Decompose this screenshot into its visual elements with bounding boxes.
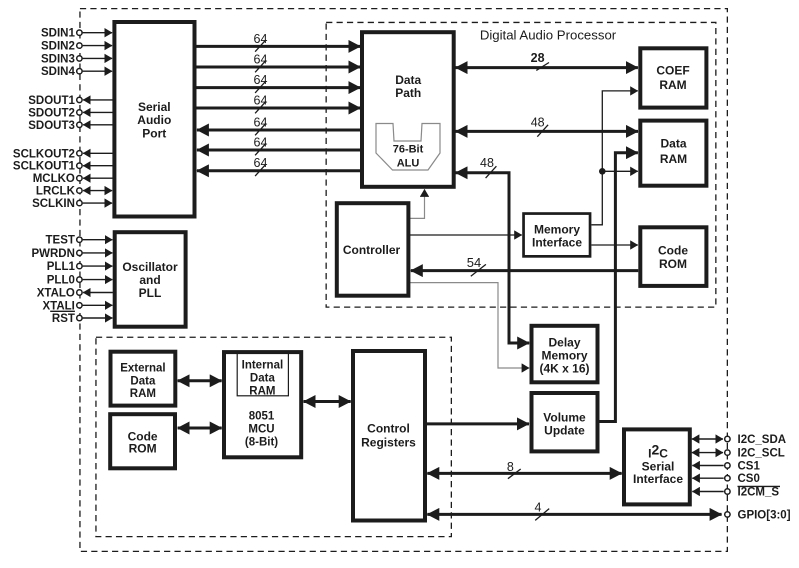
svg-text:XTALO: XTALO (37, 288, 75, 300)
svg-text:Digital Audio Processor: Digital Audio Processor (480, 28, 617, 43)
svg-text:External: External (120, 362, 165, 374)
svg-text:PWRDN: PWRDN (31, 248, 74, 260)
svg-text:64: 64 (254, 73, 268, 87)
svg-text:I2C_SCL: I2C_SCL (738, 448, 785, 460)
svg-text:Serial: Serial (138, 100, 171, 114)
Digital Audio Processor dashed box (326, 22, 716, 307)
svg-text:(4K x 16): (4K x 16) (539, 362, 589, 376)
svg-text:PLL1: PLL1 (47, 261, 76, 273)
svg-text:RAM: RAM (249, 386, 275, 398)
bus 64 #6 (wire) (197, 135, 360, 155)
svg-text:TEST: TEST (46, 235, 75, 247)
bus 64 #2 (wire) (197, 52, 361, 72)
pin PLL0 (47, 275, 113, 287)
pin SCLKIN (32, 198, 112, 210)
svg-text:PLL: PLL (139, 286, 162, 300)
svg-text:4: 4 (535, 500, 542, 514)
bus 54 Code ROM->Controller (wire) (411, 255, 639, 276)
bus 64 #7 (wire) (197, 156, 360, 176)
svg-text:I2C_SDA: I2C_SDA (738, 434, 787, 446)
svg-text:Delay: Delay (548, 336, 580, 350)
svg-text:PLL0: PLL0 (47, 275, 75, 287)
svg-text:SDIN4: SDIN4 (41, 66, 75, 78)
pin I2CM_S (active low) (692, 486, 780, 498)
pin SDIN2 (41, 41, 112, 53)
bus 4 Control Registers<->GPIO (wire) (427, 500, 721, 520)
svg-text:76-Bit: 76-Bit (393, 143, 424, 155)
wire Controller->Delay Memory (gray) (410, 283, 529, 368)
svg-text:Audio: Audio (137, 113, 171, 127)
block 8051 MCU (224, 352, 301, 457)
svg-text:64: 64 (254, 52, 268, 66)
block Volume Update (532, 393, 598, 451)
svg-text:ROM: ROM (129, 442, 157, 456)
pin SDOUT3 (28, 120, 112, 132)
pin TEST (46, 235, 113, 247)
svg-text:48: 48 (480, 156, 494, 170)
svg-text:and: and (139, 273, 160, 287)
svg-text:MCU: MCU (248, 424, 274, 436)
outer chip boundary (dashed) (80, 9, 727, 552)
svg-text:SDIN1: SDIN1 (41, 28, 75, 40)
block Oscillator and PLL (115, 232, 186, 327)
svg-text:28: 28 (531, 51, 545, 65)
label: Digital Audio Processor (480, 28, 617, 43)
pin SDOUT1 (28, 95, 112, 107)
block Data Path (362, 32, 454, 187)
svg-text:RAM: RAM (659, 78, 686, 92)
pin SDOUT2 (28, 107, 112, 119)
svg-text:Oscillator: Oscillator (122, 260, 178, 274)
bus 48 Data Path<->Data RAM (wire) (456, 115, 639, 136)
svg-text:RST: RST (52, 313, 75, 325)
svg-text:SDOUT1: SDOUT1 (28, 95, 75, 107)
svg-text:Control: Control (367, 421, 410, 435)
pin SCLKOUT2 (13, 148, 113, 160)
svg-text:COEF: COEF (656, 64, 689, 78)
svg-text:8051: 8051 (249, 410, 275, 422)
svg-text:(8-Bit): (8-Bit) (245, 437, 278, 449)
svg-text:Data: Data (130, 375, 156, 387)
pin XTALO (37, 288, 113, 300)
pin I2C_SCL (692, 448, 785, 460)
pin SDIN1 (41, 28, 112, 40)
svg-text:SDOUT3: SDOUT3 (28, 120, 75, 132)
svg-text:MCLKO: MCLKO (33, 173, 75, 185)
pin MCLKO (33, 173, 113, 185)
svg-text:SDIN3: SDIN3 (41, 53, 75, 65)
bus 28 Data Path<->COEF RAM (wire) (456, 51, 638, 70)
block Code ROM (DAP) (640, 227, 706, 286)
block COEF RAM (640, 48, 706, 107)
svg-text:Controller: Controller (343, 243, 401, 257)
svg-text:CS1: CS1 (738, 461, 761, 473)
svg-text:Volume: Volume (543, 411, 586, 425)
block Controller (337, 203, 409, 296)
svg-text:Data: Data (660, 137, 686, 151)
bus 8 Control Registers<->I2C (wire) (427, 460, 621, 479)
svg-text:CS0: CS0 (738, 473, 760, 485)
block Code ROM (MCU) (110, 414, 175, 468)
pin CS1 (692, 461, 760, 473)
svg-text:ALU: ALU (397, 158, 420, 170)
block Delay Memory (532, 326, 598, 383)
svg-text:Internal: Internal (242, 360, 284, 372)
wire Memory Interface->Code ROM (591, 244, 637, 246)
wire Controller->Data Path (gray) (410, 189, 425, 218)
pin LRCLK (36, 186, 112, 198)
pin PLL1 (47, 261, 113, 273)
block Control Registers (353, 351, 425, 521)
pin SDIN4 (41, 66, 112, 78)
svg-text:SCLKOUT2: SCLKOUT2 (13, 148, 75, 160)
wire Memory Interface->Data RAM (602, 170, 638, 172)
svg-text:Code: Code (658, 244, 688, 258)
svg-text:Data: Data (395, 73, 421, 87)
svg-text:Memory: Memory (534, 223, 580, 237)
svg-text:64: 64 (254, 115, 268, 129)
pin PWRDN (31, 248, 112, 260)
block External Data RAM (111, 352, 176, 406)
svg-text:54: 54 (467, 255, 481, 270)
svg-text:RAM: RAM (130, 388, 156, 400)
block Serial Audio Port (114, 22, 194, 217)
inner box Internal Data RAM (237, 353, 288, 398)
svg-text:Registers: Registers (361, 435, 416, 449)
svg-text:RAM: RAM (660, 152, 687, 166)
bus 8051<->Control Registers (wire) (304, 400, 351, 403)
block I2C Serial Interface (624, 429, 690, 504)
svg-text:SDOUT2: SDOUT2 (28, 107, 75, 119)
wire Control Registers->Volume Update (427, 422, 529, 425)
svg-text:Update: Update (544, 424, 585, 438)
svg-text:Path: Path (395, 86, 421, 100)
svg-text:64: 64 (254, 93, 268, 107)
pin GPIO[3:0] (725, 509, 791, 521)
wire Controller->Memory Interface (410, 234, 522, 236)
svg-text:SCLKOUT1: SCLKOUT1 (13, 161, 76, 173)
svg-text:SDIN2: SDIN2 (41, 41, 75, 53)
pin RST (active low) (50, 311, 112, 325)
bus Code ROM<->8051 (wire) (178, 427, 222, 430)
pin I2C_SDA (692, 434, 786, 446)
svg-text:Data: Data (250, 373, 276, 385)
MCU subsystem dashed box (96, 337, 451, 536)
bus 64 #4 (wire) (197, 93, 361, 113)
pin XTALI (43, 300, 113, 312)
svg-text:LRCLK: LRCLK (36, 186, 76, 198)
svg-text:I2CM_S: I2CM_S (738, 487, 780, 499)
pin SCLKOUT1 (13, 161, 113, 173)
svg-text:Serial: Serial (642, 459, 675, 473)
wire Memory Interface->COEF RAM (591, 91, 637, 225)
pin SDIN3 (41, 53, 112, 65)
svg-text:Memory: Memory (541, 349, 587, 363)
wire Volume Update->Data RAM (600, 153, 638, 422)
svg-text:8: 8 (507, 460, 514, 474)
junction dot (599, 168, 606, 175)
svg-text:64: 64 (254, 135, 268, 149)
svg-text:48: 48 (531, 115, 545, 129)
svg-text:Interface: Interface (532, 236, 582, 250)
svg-text:XTALI: XTALI (43, 300, 75, 312)
bus External Data RAM<->8051 (wire) (178, 379, 222, 382)
svg-text:Interface: Interface (633, 472, 683, 486)
pin CS0 (692, 473, 760, 485)
block Memory Interface (524, 214, 591, 257)
svg-text:64: 64 (254, 32, 268, 46)
bus 64 #5 (wire) (197, 115, 360, 135)
svg-text:GPIO[3:0]: GPIO[3:0] (738, 509, 791, 521)
svg-text:64: 64 (254, 156, 268, 170)
svg-text:Port: Port (142, 127, 166, 141)
bus 48 ALU<->Delay Memory (wire) (456, 156, 530, 343)
svg-text:ROM: ROM (659, 257, 687, 271)
bus 64 #3 (wire) (197, 73, 361, 93)
bus 64 #1 (wire) (197, 32, 361, 52)
block Data RAM (640, 121, 706, 186)
ALU shape 76-Bit ALU (376, 124, 440, 171)
svg-text:SCLKIN: SCLKIN (32, 198, 75, 210)
